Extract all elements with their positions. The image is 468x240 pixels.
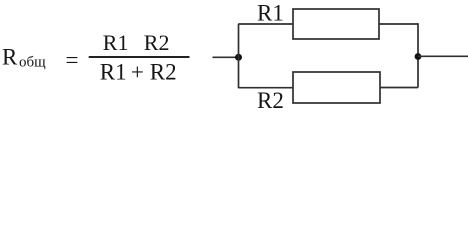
fraction numerator R1·R2: [103, 30, 170, 55]
svg-text:+: +: [131, 59, 144, 84]
wire: left vertical branch riser: [238, 24, 240, 88]
svg-text:R2: R2: [257, 88, 284, 113]
wire: bottom branch left segment: [238, 87, 293, 89]
node label R_общ (formula left-hand side): [2, 45, 46, 71]
wire: right lead out of circuit: [418, 55, 468, 57]
node: right junction: [415, 53, 422, 60]
wire: right vertical branch riser: [417, 23, 419, 87]
svg-text:общ: общ: [19, 55, 46, 71]
svg-text:R2: R2: [144, 30, 170, 55]
svg-text:R1: R1: [103, 30, 129, 55]
resistor R2 (body): [293, 72, 380, 103]
svg-text:R1: R1: [100, 59, 127, 84]
wire: top branch right segment: [379, 23, 418, 25]
node: left junction: [235, 54, 242, 61]
svg-text:R: R: [2, 45, 18, 70]
fraction bar: [89, 56, 190, 58]
svg-text:=: =: [66, 48, 79, 73]
svg-text:R2: R2: [150, 59, 177, 84]
wire: bottom branch right segment: [380, 87, 418, 89]
wire: top branch left segment: [238, 23, 293, 25]
svg-text:R1: R1: [257, 1, 284, 26]
wire: left lead into circuit: [213, 56, 240, 58]
resistor R1 (body): [293, 9, 379, 39]
